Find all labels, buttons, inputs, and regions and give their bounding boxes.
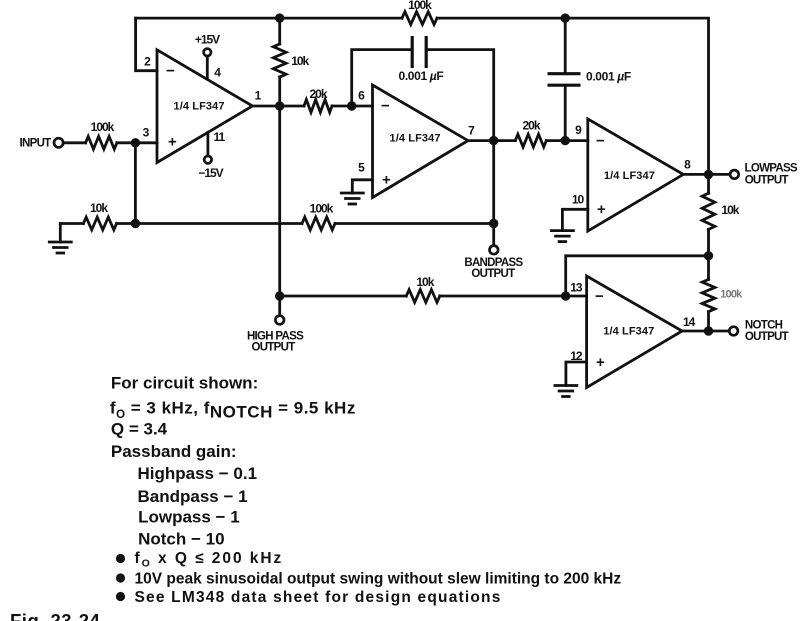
wire pin14 output bbox=[682, 330, 729, 333]
wire C1 feedback left bbox=[352, 50, 413, 106]
svg-text:+: + bbox=[382, 172, 391, 189]
svg-text:10k: 10k bbox=[416, 275, 434, 289]
svg-text:OUTPUT: OUTPUT bbox=[471, 268, 515, 280]
op-amp U2 (1/4 LF347) bbox=[373, 85, 469, 198]
svg-text:1/4 LF347: 1/4 LF347 bbox=[390, 133, 441, 145]
svg-text:20k: 20k bbox=[309, 87, 327, 101]
node bandpass Q junction bbox=[489, 219, 498, 228]
wire C2 top bbox=[564, 18, 567, 74]
node pin9 junction bbox=[561, 136, 570, 145]
svg-text:NOTCH: NOTCH bbox=[745, 320, 783, 332]
svg-text:10V peak sinusoidal output swi: 10V peak sinusoidal output swing without… bbox=[135, 571, 622, 588]
ground (U3 pin10) bbox=[551, 231, 573, 242]
wire pin11 to -15V bbox=[206, 132, 209, 156]
op-amp U3 (1/4 LF347) bbox=[588, 119, 684, 231]
wire pin2 to top rail bbox=[136, 18, 157, 71]
wire input to resistor bbox=[63, 141, 85, 144]
wire highpass rail bbox=[280, 295, 587, 298]
svg-text:14: 14 bbox=[683, 315, 696, 329]
node pin1 junction bbox=[275, 101, 284, 110]
svg-text:12: 12 bbox=[570, 349, 583, 363]
terminal LOWPASS OUTPUT bbox=[730, 170, 739, 179]
svg-text:+: + bbox=[596, 354, 605, 371]
svg-text:10k: 10k bbox=[721, 203, 739, 217]
svg-text:fO x Q ≤ 200 kHz: fO x Q ≤ 200 kHz bbox=[135, 550, 284, 570]
svg-text:Q = 3.4: Q = 3.4 bbox=[111, 419, 168, 438]
node pin3 junction bbox=[131, 138, 140, 147]
wire pin10 to ground bbox=[562, 209, 587, 230]
wire C2 bottom bbox=[564, 85, 567, 140]
capacitor C2 0.001uF bbox=[548, 74, 581, 86]
terminal HIGH PASS OUTPUT bbox=[275, 316, 284, 325]
svg-text:20k: 20k bbox=[522, 119, 540, 133]
op-amp U4 (1/4 LF347) bbox=[587, 276, 683, 388]
svg-text:−: − bbox=[381, 98, 390, 115]
terminal NOTCH OUTPUT bbox=[729, 327, 738, 336]
terminal -15V bbox=[204, 156, 211, 163]
wire pin12 to ground bbox=[566, 362, 587, 386]
wire pin1 node vertical bbox=[278, 18, 281, 316]
wire +15V to pin4 bbox=[206, 56, 209, 78]
svg-text:10: 10 bbox=[572, 192, 585, 206]
ground (U2 pin5) bbox=[341, 193, 363, 204]
resistor 10k feedback bbox=[273, 44, 286, 77]
svg-text:Highpass − 0.1: Highpass − 0.1 bbox=[138, 464, 258, 483]
wire notch link bbox=[566, 256, 709, 296]
svg-text:Notch − 10: Notch − 10 bbox=[138, 529, 224, 548]
wire pin7 output rail bbox=[468, 139, 588, 142]
resistor 100k notch lower bbox=[702, 279, 715, 311]
svg-text:Bandpass − 1: Bandpass − 1 bbox=[138, 487, 248, 506]
node pin7 junction bbox=[489, 136, 498, 145]
svg-text:OUTPUT: OUTPUT bbox=[251, 342, 295, 354]
op-amp U1 (1/4 LF347) bbox=[157, 50, 253, 163]
svg-text:−: − bbox=[166, 63, 175, 80]
svg-text:For circuit shown:: For circuit shown: bbox=[111, 374, 258, 393]
node notch link junction bbox=[704, 251, 713, 260]
svg-text:1/4 LF347: 1/4 LF347 bbox=[603, 326, 654, 338]
wire C1 feedback right bbox=[426, 50, 494, 246]
terminal +15V bbox=[204, 49, 211, 56]
node lowpass junction bbox=[704, 170, 713, 179]
svg-text:0.001 µF: 0.001 µF bbox=[399, 69, 444, 83]
svg-text:100k: 100k bbox=[408, 0, 432, 12]
svg-text:−: − bbox=[596, 133, 605, 150]
svg-text:1/4 LF347: 1/4 LF347 bbox=[174, 101, 225, 113]
svg-text:100k: 100k bbox=[310, 202, 334, 216]
wire top feedback rail bbox=[136, 18, 709, 174]
svg-text:Fig. 23-24: Fig. 23-24 bbox=[10, 610, 101, 621]
node pin6 junction bbox=[347, 101, 356, 110]
svg-text:OUTPUT: OUTPUT bbox=[745, 331, 789, 343]
svg-text:+: + bbox=[168, 134, 177, 151]
capacitor C1 0.001uF bbox=[412, 36, 426, 68]
ground (U4 pin12) bbox=[555, 386, 577, 397]
resistor 100k input bbox=[86, 136, 117, 149]
svg-text:1/4 LF347: 1/4 LF347 bbox=[604, 170, 655, 182]
svg-text:100k: 100k bbox=[91, 120, 115, 134]
svg-text:+15V: +15V bbox=[195, 33, 220, 47]
svg-text:INPUT: INPUT bbox=[20, 138, 52, 150]
svg-text:13: 13 bbox=[570, 281, 583, 295]
node top rail junction A bbox=[275, 13, 284, 22]
svg-text:10k: 10k bbox=[90, 201, 108, 215]
node Q rail junction bbox=[131, 219, 140, 228]
svg-text:10k: 10k bbox=[291, 54, 309, 68]
wire lowpass to 10k bbox=[707, 174, 710, 331]
wire pin8 output bbox=[683, 173, 730, 176]
svg-text:−: − bbox=[595, 288, 604, 305]
wire resistor to pin3 bbox=[117, 141, 157, 144]
svg-text:Passband gain:: Passband gain: bbox=[111, 442, 237, 461]
node notch output junction bbox=[704, 326, 713, 335]
wire ground to Q-feedback rail bbox=[60, 222, 493, 225]
note: bullet list bbox=[116, 554, 125, 563]
svg-text:+: + bbox=[597, 201, 606, 218]
wire pin1 output rail bbox=[253, 105, 373, 108]
resistor 10k notch upper bbox=[702, 193, 715, 229]
resistor 10k to ground bbox=[83, 217, 116, 230]
svg-text:See LM348 data sheet for desig: See LM348 data sheet for design equation… bbox=[135, 589, 502, 606]
wire pin3 node down bbox=[134, 143, 137, 224]
svg-text:0.001 µF: 0.001 µF bbox=[586, 70, 631, 84]
resistor 100k Q feedback bbox=[302, 217, 335, 230]
resistor 20k stage2 bbox=[515, 134, 546, 147]
resistor 10k highpass bbox=[406, 290, 439, 303]
svg-text:LOWPASS: LOWPASS bbox=[745, 162, 798, 174]
svg-text:Lowpass − 1: Lowpass − 1 bbox=[138, 508, 240, 527]
node pin13 junction bbox=[561, 291, 570, 300]
wire pin5 to ground bbox=[352, 180, 372, 193]
svg-text:11: 11 bbox=[214, 130, 226, 144]
node highpass junction bbox=[275, 291, 284, 300]
svg-text:100k: 100k bbox=[720, 289, 743, 301]
resistor 20k stage1 bbox=[304, 100, 332, 113]
node C2 top junction bbox=[561, 13, 570, 22]
ground (input divider) bbox=[59, 224, 62, 243]
svg-text:OUTPUT: OUTPUT bbox=[745, 175, 789, 187]
resistor 100k top feedback bbox=[402, 12, 437, 25]
terminal INPUT bbox=[54, 138, 63, 147]
terminal BANDPASS OUTPUT bbox=[490, 246, 499, 255]
svg-text:−15V: −15V bbox=[198, 166, 223, 180]
